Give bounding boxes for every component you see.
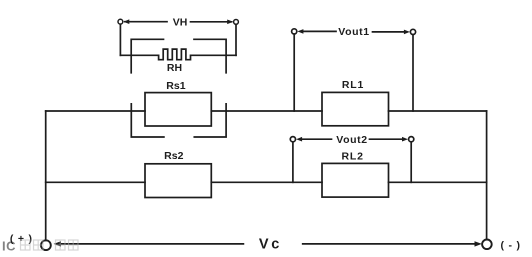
wire top row left segment xyxy=(46,110,145,112)
Vout2 arrow right segment xyxy=(370,137,409,142)
wire Vout1 right drop xyxy=(412,35,414,111)
Vout1 right terminal circle xyxy=(410,29,415,34)
svg-text:RL2: RL2 xyxy=(341,150,363,162)
Vc wire right segment with arrow to (-) xyxy=(303,241,482,246)
svg-text:Rs1: Rs1 xyxy=(166,80,185,92)
Vc wire left segment with arrow to (+) xyxy=(54,241,244,246)
wire top row right segment xyxy=(389,110,487,112)
svg-text:Vout1: Vout1 xyxy=(338,26,369,38)
wire left bus vertical xyxy=(45,111,47,240)
negative supply terminal circle (-) xyxy=(482,240,492,250)
resistor RL1 box xyxy=(322,92,389,125)
svg-text:VH: VH xyxy=(173,16,188,28)
Rs1 substrate frame (bracket) xyxy=(131,104,226,137)
wire middle row right segment xyxy=(389,181,487,183)
resistor Rs2 box xyxy=(145,164,211,198)
resistor Rs1 box xyxy=(145,93,211,126)
wire middle row left segment xyxy=(46,181,145,183)
VH measurement left terminal circle xyxy=(118,19,123,24)
Vout1 arrow right segment xyxy=(373,30,410,35)
Vout2 arrow left segment xyxy=(296,137,331,142)
svg-text:RL1: RL1 xyxy=(342,79,364,91)
wire middle row center segment xyxy=(211,181,322,183)
wire top row middle segment xyxy=(211,110,322,112)
RH substrate frame (hat) xyxy=(131,39,226,73)
VH arrow right segment xyxy=(191,20,234,25)
svg-text:IC: IC xyxy=(2,239,16,254)
svg-text:Vout2: Vout2 xyxy=(336,134,367,146)
wire VH left circle drop xyxy=(119,24,121,55)
Vout1 arrow left segment xyxy=(297,29,336,34)
wire Vout2 right drop xyxy=(410,142,412,182)
wire Vout1 left drop xyxy=(293,34,295,111)
wire VH right circle drop xyxy=(235,25,237,56)
VH arrow left segment xyxy=(123,19,167,24)
svg-text:(-): (-) xyxy=(501,239,525,251)
Vout2 left terminal circle xyxy=(290,137,295,142)
wire Vout2 left drop xyxy=(292,142,294,182)
resistor RL2 box xyxy=(322,163,389,197)
resistor RH meander element xyxy=(120,49,236,60)
svg-text:RH: RH xyxy=(167,62,182,74)
svg-text:Vc: Vc xyxy=(259,237,282,253)
Vout2 right terminal circle xyxy=(409,137,414,142)
svg-text:Rs2: Rs2 xyxy=(164,150,183,162)
Vout1 left terminal circle xyxy=(292,29,297,34)
watermark xyxy=(2,239,78,254)
VH measurement right terminal circle xyxy=(234,20,239,25)
positive supply terminal circle (+) xyxy=(41,240,51,250)
wire right bus vertical xyxy=(486,111,488,240)
